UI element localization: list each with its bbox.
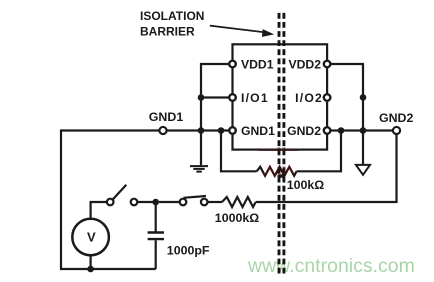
svg-text:VDD1: VDD1 (241, 57, 274, 71)
svg-text:I/O2: I/O2 (295, 91, 323, 105)
svg-text:ISOLATION: ISOLATION (140, 9, 204, 23)
svg-text:I/O1: I/O1 (241, 91, 269, 105)
svg-text:V: V (87, 229, 96, 244)
svg-text:1000kΩ: 1000kΩ (215, 211, 259, 225)
svg-text:GND1: GND1 (241, 124, 275, 138)
svg-text:GND2: GND2 (379, 111, 414, 125)
svg-text:www.cntronics.com: www.cntronics.com (247, 255, 415, 277)
svg-text:VDD2: VDD2 (288, 57, 321, 71)
svg-text:GND1: GND1 (149, 110, 184, 124)
svg-text:1000pF: 1000pF (167, 244, 210, 258)
svg-text:100kΩ: 100kΩ (287, 178, 325, 192)
svg-text:GND2: GND2 (287, 124, 321, 138)
svg-text:BARRIER: BARRIER (140, 25, 195, 39)
